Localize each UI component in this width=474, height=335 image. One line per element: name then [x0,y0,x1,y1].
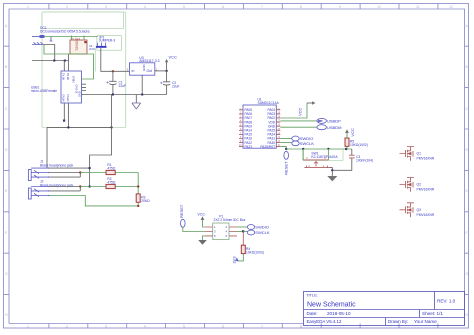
svg-text:PA23: PA23 [245,145,253,149]
wire shield rail dark [32,60,68,62]
resistor R1 [80,170,138,174]
wire dc sleeve dark [44,45,55,61]
svg-text:EasyEDA V5.4.12: EasyEDA V5.4.12 [307,319,342,324]
J2 sleeve wire green [50,196,139,206]
resistor R4 label [246,247,264,255]
USB top shield pins [64,61,68,72]
U2 ground stub [67,54,69,61]
svg-text:Q2: Q2 [417,183,422,187]
svg-text:MTN4: MTN4 [66,94,70,102]
resistor R2 label [107,177,116,184]
svg-text:3: 3 [105,5,107,9]
ground symbol P1 [198,240,207,245]
junction sw1 left [302,148,304,150]
junction sw1 right [327,148,329,150]
USB bottom shield pins [64,103,68,127]
USB mount pad mark [63,120,65,122]
frame right ticks [465,46,469,294]
regulator U3 body [130,63,155,75]
MCU right pin stubs [276,110,280,147]
VCC symbol U3 [165,55,177,71]
svg-text:10: 10 [377,5,381,9]
MCU left pin stubs [239,110,243,147]
svg-text:4: 4 [144,5,146,9]
VCC symbol R5 [345,128,355,137]
svg-text:1: 1 [27,5,29,9]
net flag RESET p1 [179,204,185,227]
svg-text:2018-05-10: 2018-05-10 [327,311,351,316]
resistor R1 label [107,163,116,170]
wire reset row green [286,148,352,150]
DC jack DC1 label [40,26,90,34]
junction J1 [79,171,81,173]
net flag SWDIO p1 [247,225,269,230]
wire P1 pin5 to ground [203,236,205,240]
VCC symbol MCU [298,101,316,116]
svg-text:In: In [132,69,135,73]
resistor R5 [345,133,349,149]
svg-text:MTN3: MTN3 [62,94,66,102]
svg-text:3V3: 3V3 [232,256,237,264]
MCU U1 label [258,98,280,106]
svg-text:TITLE:: TITLE: [306,293,318,298]
junction J2 [79,185,81,187]
svg-text:G: G [5,272,8,276]
jumper JP1 label [99,35,116,42]
wire swclk to flag [243,231,247,233]
USB GND wire [82,94,84,96]
svg-text:100nF(104): 100nF(104) [356,158,373,162]
svg-text:USBDP: USBDP [327,119,341,124]
transistor Q3 label [417,208,435,217]
svg-text:5: 5 [183,324,185,328]
svg-text:9: 9 [339,5,341,9]
MCU right pin numbers [277,108,280,147]
resistor R5 label [350,140,368,148]
transistor Q1 label [417,152,435,161]
resistor R3 [136,194,140,206]
wire MCU usbdp [280,120,317,122]
svg-text:PA28/RST: PA28/RST [260,145,275,149]
junction R3 bottom [137,205,139,207]
junction U3 out [165,70,167,72]
net flag USBDM [317,125,341,130]
MCU left pin numbers [239,108,242,147]
MCU left pin names [245,108,253,149]
USB1 ref label [31,86,57,94]
svg-text:11: 11 [416,5,420,9]
junction lower rail usb [67,126,69,128]
USB data stubs [82,84,87,90]
svg-text:Sheet: 1/1: Sheet: 1/1 [422,311,443,316]
net flag SWCLK p1 [247,230,270,235]
wire U3 out [155,70,167,72]
jumper JP1 symbol [96,43,107,48]
junction shield [53,60,55,62]
svg-text:20KΩ: 20KΩ [141,199,150,203]
svg-text:JUMPER-3: JUMPER-3 [99,39,116,43]
header P1 body [205,223,237,240]
svg-text:PMV16XNR: PMV16XNR [417,213,435,217]
junction rail U3gnd [141,93,143,95]
green group rect B [97,36,122,51]
wire P1 swdio [237,226,248,228]
junction R2 out [137,185,139,187]
wire jumper down dark [101,48,130,72]
junction C1 top red [112,70,114,72]
svg-text:F: F [5,231,7,235]
wire R1 to R2 column green [137,173,139,194]
svg-text:8: 8 [300,5,302,9]
title block [304,292,465,326]
wire R4 to 3V3 [238,254,244,261]
U2 top pin stubs [72,36,84,41]
svg-text:PMV16XNR: PMV16XNR [417,157,435,161]
regulator U2 body [70,38,87,54]
svg-text:D-: D- [75,84,79,87]
svg-text:7: 7 [261,324,263,328]
svg-text:VBUS: VBUS [72,76,76,83]
frame left ticks [4,46,10,294]
svg-text:Out: Out [147,69,153,73]
jack J2 symbol [28,186,49,199]
svg-text:10KΩ(1002): 10KΩ(1002) [350,143,368,147]
wire MCU reset [280,147,286,149]
junction R5 bottom [345,148,347,150]
junction J2 gnd [88,185,90,187]
DC jack DC1 symbol [32,35,53,44]
resistor R4 [241,232,245,254]
frame bottom ticks [49,324,438,329]
svg-text:10KΩ(1003): 10KΩ(1003) [246,251,264,255]
switch SW1 label [311,151,338,159]
transistor Q1 [400,147,415,161]
svg-text:New Schematic: New Schematic [307,302,356,309]
net flag USBDP [317,118,341,123]
net flag SWCLK mcu [292,141,315,146]
svg-text:78M05: 78M05 [74,38,79,51]
wire vcc to P1 [203,220,205,227]
wire reset to P1 [183,227,205,231]
resistor R2 [80,184,138,188]
resistor R3 label [141,195,150,203]
svg-text:4: 4 [144,324,146,328]
transistor Q3 [400,203,415,217]
switch SW1 symbol [303,149,330,168]
wire ground drop [90,95,112,187]
wire dc tip green [44,36,98,38]
svg-text:MTN1: MTN1 [62,72,66,80]
jack J1 label [40,160,73,168]
junction J1 gnd [88,167,90,169]
svg-text:12: 12 [449,5,453,9]
capacitor C2 [160,71,179,95]
wire MCU usbdm [280,126,317,128]
USB1 connector body [61,71,82,103]
svg-text:VCC: VCC [198,212,206,216]
svg-text:2: 2 [66,5,68,9]
J2 pin wires dark [50,187,81,191]
svg-text:DCConnector/DC-005A 5.5Jacks: DCConnector/DC-005A 5.5Jacks [40,30,90,34]
svg-text:6: 6 [222,5,224,9]
svg-text:SWCLK: SWCLK [300,141,315,146]
svg-text:2X2 2.54mm IDC Box: 2X2 2.54mm IDC Box [214,218,246,222]
svg-text:VCC: VCC [298,107,303,116]
capacitor C1 [107,71,127,94]
svg-text:RESET: RESET [179,204,184,218]
green group rect A [42,12,126,128]
junction sw1 gnd [331,169,333,171]
ground symbol sw1 [327,176,337,181]
green group rect C [303,150,343,161]
ground rail dark [82,94,167,96]
U3 gnd pin wire [141,75,143,94]
svg-text:USBDM: USBDM [327,125,341,130]
wire sw1 to ground [330,168,332,176]
svg-text:Your Name: Your Name [414,319,437,324]
regulator U3 label [139,56,159,63]
MCU right pin names [260,108,275,149]
net flag 3V3 [232,256,239,264]
svg-text:PMV16XNR: PMV16XNR [417,188,435,192]
VCC symbol P1 [198,212,206,220]
svg-text:3: 3 [105,324,107,328]
junction reset [285,148,287,150]
jack J1 symbol [28,167,49,180]
header P1 label [214,215,246,223]
svg-text:Date:: Date: [307,311,318,316]
svg-text:22uF: 22uF [172,85,180,89]
svg-text:LMO: LMO [89,47,96,51]
svg-text:Drawn By:: Drawn By: [388,319,408,324]
svg-text:Black headphone jack: Black headphone jack [40,163,73,167]
svg-text:D+: D+ [75,86,79,90]
transistor Q2 [400,178,415,192]
svg-text:RESET: RESET [283,161,288,175]
svg-text:2: 2 [66,324,68,328]
svg-text:G: G [466,272,469,276]
ground symbol 1 [132,95,141,110]
net flag RESET mcu [283,151,288,175]
wire MCU vdd to VCC [280,103,307,118]
svg-text:MTN2: MTN2 [66,72,70,80]
wire MCU swclk [280,142,292,144]
svg-text:22uF: 22uF [119,84,127,88]
svg-text:micro-USBFemale: micro-USBFemale [31,89,57,93]
junction rail C1 [112,93,114,95]
transistor Q2 label [417,183,435,192]
svg-text:REV: 1.0: REV: 1.0 [437,299,456,304]
svg-text:8: 8 [300,324,302,328]
svg-text:GND: GND [78,91,82,97]
svg-text:GND: GND [142,64,146,72]
svg-text:6: 6 [222,324,224,328]
wire MCU swdio [280,138,292,140]
jack J2 label [40,180,73,188]
MCU U1 body [243,105,276,148]
svg-text:F: F [466,231,468,235]
svg-text:SWCLK: SWCLK [255,230,270,235]
junction swclk [242,230,244,232]
frame top ticks [49,4,438,10]
svg-text:Q1: Q1 [417,152,422,156]
svg-text:Q3: Q3 [417,208,422,212]
capacitor C3 [332,149,373,170]
wire P1 swclk [237,231,243,233]
USB VBUS wire green [44,45,94,80]
svg-text:7: 7 [261,5,263,9]
svg-text:VCC: VCC [350,128,355,137]
J1 pin wires dark [50,167,90,169]
net flag SWDIO mcu [292,136,314,141]
junction lower rail right [110,126,112,128]
svg-text:SWDIO: SWDIO [255,225,269,230]
lower rail dark [47,126,112,128]
wire left drop [46,127,48,168]
U2 ref text [89,44,96,51]
svg-text:5: 5 [183,5,185,9]
svg-text:VCC: VCC [169,55,178,60]
svg-text:1: 1 [27,324,29,328]
